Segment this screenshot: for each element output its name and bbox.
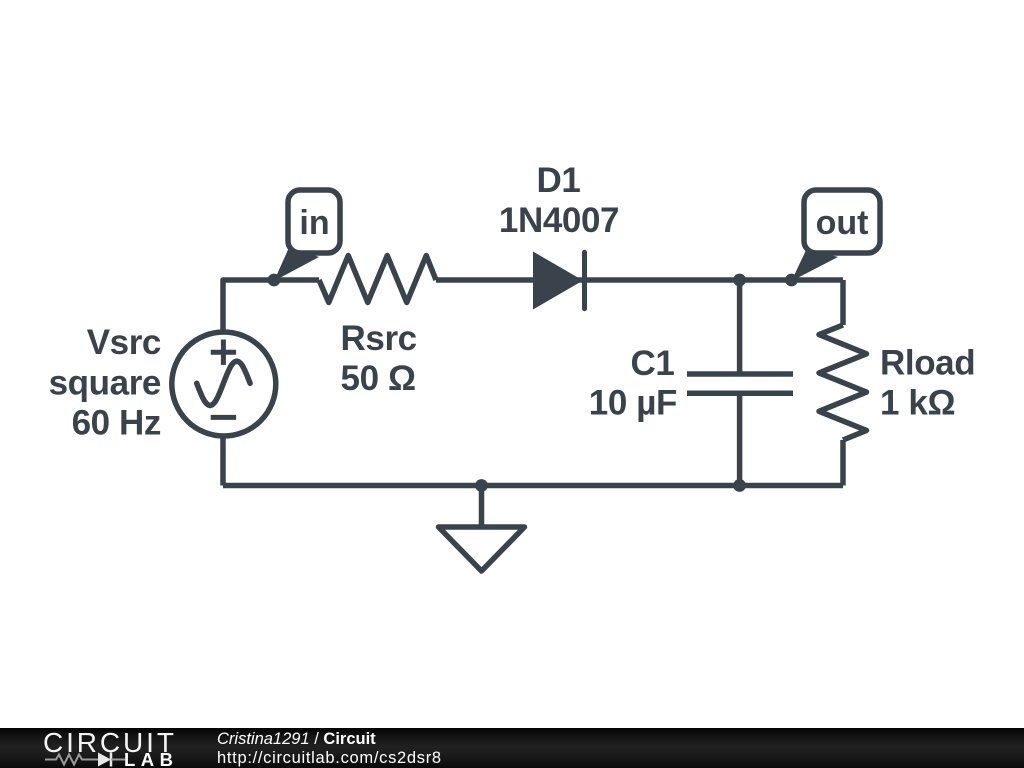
voltage source sine wave	[197, 361, 250, 405]
ground stem wire	[479, 486, 485, 528]
svg-text:1N4007: 1N4007	[499, 201, 619, 240]
footer bar	[0, 728, 1024, 768]
wire from resistor to diode and on to right corner	[436, 277, 843, 283]
logo wire to LAB	[111, 759, 125, 761]
flag out box	[804, 190, 880, 253]
svg-text:Vsrc: Vsrc	[87, 323, 161, 362]
svg-text:Rsrc: Rsrc	[341, 319, 417, 358]
wire top-left from source to resistor with node stub	[223, 280, 319, 333]
capacitor C1 top lead wire	[737, 280, 743, 374]
capacitor C1 bottom plate	[687, 391, 793, 397]
node dot out	[785, 274, 798, 287]
flag in tail	[274, 247, 319, 282]
svg-text:60 Hz: 60 Hz	[72, 404, 161, 443]
resistor R Rsrc zigzag	[319, 256, 436, 303]
svg-text:10 µF: 10 µF	[589, 384, 677, 423]
svg-text:1 kΩ: 1 kΩ	[880, 384, 955, 423]
ground triangle symbol	[439, 527, 525, 571]
flag in box	[288, 190, 340, 253]
resistor Rload vertical zigzag	[819, 325, 867, 440]
voltage source minus sign	[211, 415, 236, 420]
svg-text:out: out	[816, 204, 869, 242]
svg-text:in: in	[299, 204, 329, 242]
voltage source plus sign	[211, 340, 236, 365]
svg-text:square: square	[49, 364, 161, 403]
wire right vertical upper segment	[840, 280, 846, 325]
diode D1 cathode bar	[582, 252, 587, 308]
svg-text:D1: D1	[537, 161, 581, 200]
logo diode triangle	[98, 753, 111, 767]
wire right vertical lower segment	[840, 440, 846, 486]
svg-text:50 Ω: 50 Ω	[341, 359, 416, 398]
flag out tail	[792, 248, 839, 281]
logo schematic glyph	[43, 749, 133, 768]
node dot ground junction	[475, 479, 488, 492]
svg-text:Rload: Rload	[880, 344, 975, 383]
logo diode bar	[110, 753, 113, 767]
capacitor C1 bottom lead wire	[737, 393, 743, 485]
node dot junction C1 top	[733, 274, 746, 287]
voltage source V Vsrc circle	[172, 332, 276, 436]
svg-text:C1: C1	[631, 344, 675, 383]
wire left vertical lower segment	[220, 435, 226, 486]
capacitor C1 top plate	[687, 371, 793, 377]
diode D1 triangle	[533, 252, 583, 310]
node dot in	[268, 274, 281, 287]
wire bottom rail	[223, 483, 843, 489]
logo resistor zigzag	[45, 755, 98, 765]
node dot junction C1 bottom	[733, 479, 746, 492]
logo CIRCUIT wordmark	[43, 727, 177, 759]
